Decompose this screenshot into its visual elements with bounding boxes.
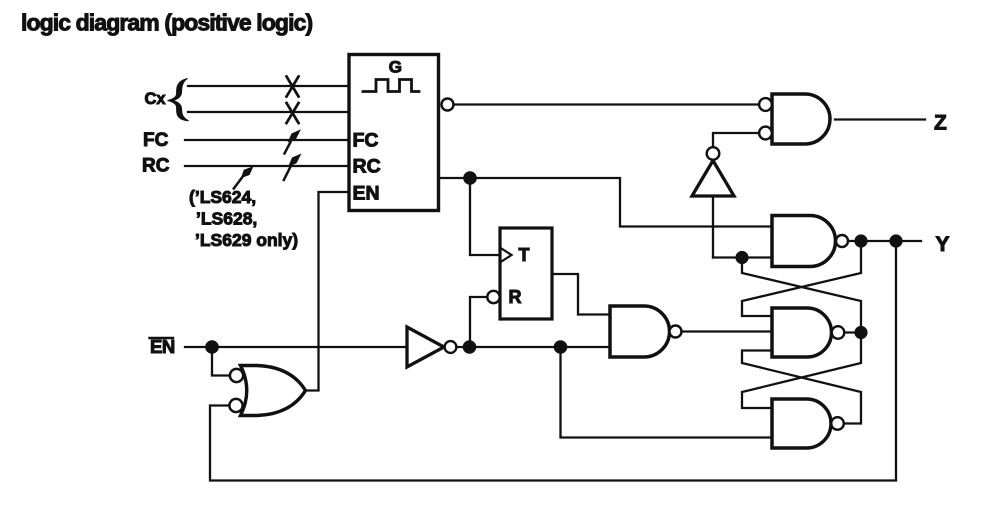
- svg-text:’LS628,: ’LS628,: [196, 209, 257, 229]
- wire OR output up to oscillator EN pin: [306, 192, 349, 391]
- svg-text:T: T: [519, 245, 530, 265]
- left NAND gate U6: [610, 306, 670, 357]
- svg-text:Cx: Cx: [145, 90, 167, 108]
- wire Cx lower: [188, 111, 349, 113]
- wire branch down to bottom NAND lower input: [561, 347, 772, 438]
- arrow on FC wire: [285, 142, 291, 154]
- junction middle NAND output: [854, 326, 867, 339]
- capacitor external-pin X mark upper: [287, 77, 299, 97]
- bubble AND upper input: [759, 98, 772, 111]
- wire inverter input across to top NAND lower input: [713, 256, 772, 258]
- wire RC: [185, 165, 349, 167]
- negative-OR gate U4: [241, 366, 306, 416]
- svg-text:logic diagram (positive logic): logic diagram (positive logic): [21, 10, 312, 36]
- wire FC: [185, 139, 349, 141]
- svg-text:(’LS624,: (’LS624,: [189, 187, 256, 207]
- callout arrow to RC wire: [234, 178, 242, 189]
- svg-text:EN: EN: [353, 182, 380, 204]
- bubble AND lower input: [759, 127, 772, 140]
- svg-text:Z: Z: [934, 112, 947, 135]
- wire EN-bar main: [185, 346, 407, 348]
- bubble left NAND output: [670, 326, 682, 338]
- cross-couple: bottom NAND output to middle NAND lower input: [742, 351, 861, 424]
- junction tap node: [463, 171, 477, 185]
- cross-couple: middle NAND output to bottom NAND upper input: [742, 333, 861, 409]
- wire inverter U5 output to left NAND lower input: [457, 346, 610, 348]
- svg-text:Y: Y: [936, 233, 950, 256]
- brace for Cx pins: [168, 79, 189, 121]
- cross-couple: top NAND lower input from middle NAND output: [742, 258, 861, 333]
- svg-text:’LS629 only): ’LS629 only): [195, 230, 298, 250]
- inverter U5 (points right): [407, 327, 444, 367]
- inverter U3 (points up): [692, 161, 734, 197]
- junction after inverter U5: [463, 340, 477, 354]
- bubble oscillator output: [442, 99, 454, 111]
- wire flip-flop output to left NAND: [552, 274, 610, 315]
- wire OR lower input to bottom rail: [210, 241, 896, 481]
- junction branch to bottom NAND: [554, 340, 568, 354]
- middle NAND gate U8: [772, 308, 831, 357]
- bubble OR lower input: [229, 399, 242, 412]
- cross-couple: top NAND output to middle NAND upper input: [742, 241, 861, 316]
- wire oscillator side tap: [439, 177, 471, 179]
- wire AND output to Z: [835, 118, 925, 120]
- junction top NAND output: [854, 234, 867, 247]
- bubble top NAND output: [836, 235, 848, 247]
- svg-text:FC: FC: [353, 129, 379, 151]
- wire Cx upper: [188, 85, 349, 87]
- wire left NAND output to middle NAND input: [682, 330, 772, 332]
- arrow on RC wire: [284, 167, 291, 180]
- bubble inverter U3 output: [707, 147, 720, 160]
- wire tap to top NAND upper input: [470, 178, 772, 227]
- wire middle NAND output stub: [844, 331, 861, 333]
- bubble bottom NAND output: [831, 417, 844, 430]
- waveform symbol: [363, 80, 419, 92]
- capacitor external-pin X mark lower: [287, 103, 299, 123]
- bubble R input: [487, 291, 499, 303]
- bottom NAND gate U9: [772, 399, 831, 448]
- junction Y rail: [889, 234, 902, 247]
- bubble inverter U5 output: [445, 341, 457, 353]
- wire inverter U3 input down: [712, 196, 714, 258]
- wire EN-bar down to OR upper input: [212, 347, 230, 376]
- svg-text:RC: RC: [353, 156, 381, 178]
- AND gate Z: [772, 94, 830, 144]
- wire R input to EN line junction: [470, 297, 487, 347]
- wire AND lower input to inverter bubble: [713, 133, 759, 147]
- flip-flop U2 box: [500, 228, 552, 319]
- svg-text:G: G: [389, 58, 402, 77]
- clock wedge: [502, 249, 512, 262]
- svg-text:FC: FC: [143, 130, 169, 151]
- wire tap down to T clock: [470, 178, 500, 255]
- junction top NAND lower input: [735, 251, 748, 264]
- wire Y output: [848, 240, 921, 242]
- junction EN-bar branch: [205, 340, 219, 354]
- bubble middle NAND output: [832, 326, 845, 339]
- svg-text:R: R: [509, 287, 522, 307]
- oscillator box U1: [349, 55, 439, 211]
- bubble OR upper input: [230, 369, 243, 382]
- top NAND gate U7: [772, 216, 836, 267]
- wire oscillator output to AND gate: [454, 103, 760, 105]
- svg-text:RC: RC: [142, 156, 170, 177]
